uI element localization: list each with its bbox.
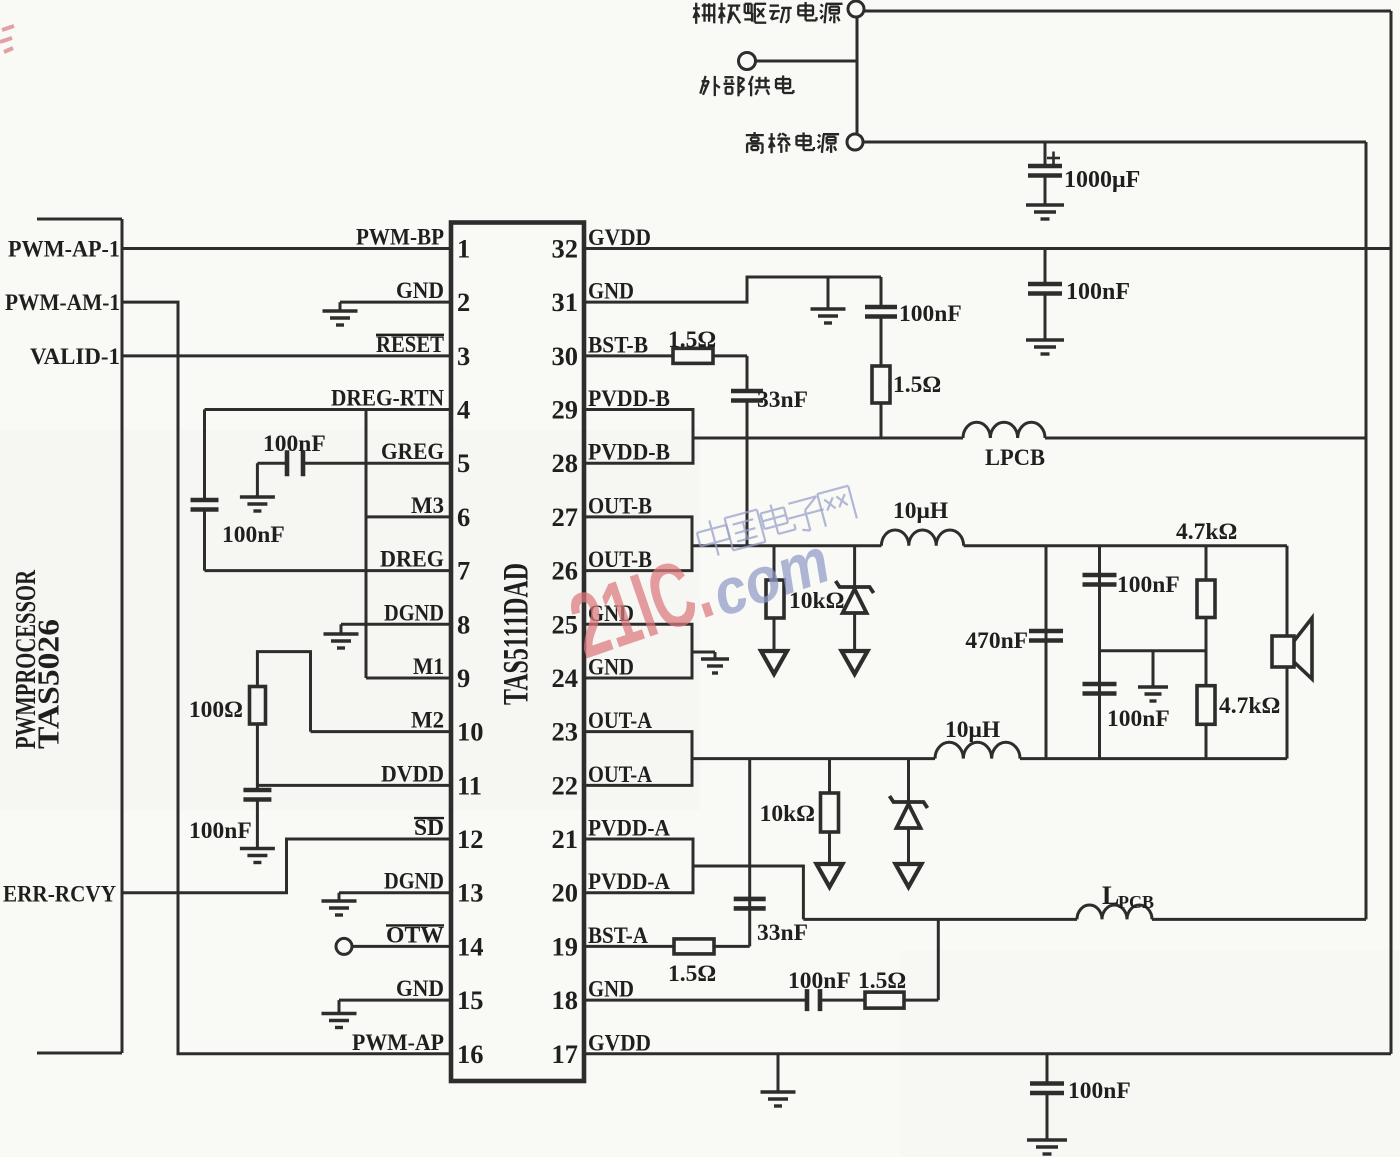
- svg-text:10: 10: [457, 717, 484, 747]
- svg-text:4.7kΩ: 4.7kΩ: [1176, 519, 1237, 545]
- svg-text:29: 29: [552, 395, 579, 425]
- svg-text:31: 31: [552, 287, 579, 317]
- svg-text:DREG-RTN: DREG-RTN: [331, 386, 444, 412]
- svg-text:PVDD-A: PVDD-A: [588, 816, 670, 842]
- svg-text:100nF: 100nF: [899, 301, 962, 327]
- svg-text:DREG: DREG: [380, 547, 444, 573]
- svg-text:16: 16: [457, 1039, 484, 1069]
- svg-text:M3: M3: [411, 493, 444, 519]
- svg-text:4: 4: [457, 395, 470, 425]
- svg-text:32: 32: [552, 234, 579, 264]
- svg-text:19: 19: [552, 931, 579, 961]
- svg-text:100nF: 100nF: [1107, 706, 1170, 732]
- svg-text:PVDD-B: PVDD-B: [588, 440, 670, 466]
- svg-text:28: 28: [552, 448, 579, 478]
- svg-text:100nF: 100nF: [222, 522, 285, 548]
- svg-text:1.5Ω: 1.5Ω: [668, 961, 716, 987]
- svg-text:10μH: 10μH: [945, 717, 1000, 743]
- svg-text:100Ω: 100Ω: [189, 697, 243, 723]
- svg-text:L: L: [1102, 881, 1119, 910]
- svg-text:GND: GND: [588, 279, 634, 305]
- svg-text:M2: M2: [411, 708, 444, 734]
- svg-text:PWM-AP-1: PWM-AP-1: [8, 237, 120, 263]
- svg-text:14: 14: [457, 931, 484, 961]
- svg-text:2: 2: [457, 287, 470, 317]
- svg-text:470nF: 470nF: [965, 628, 1028, 654]
- svg-text:LPCB: LPCB: [985, 445, 1045, 471]
- svg-text:100nF: 100nF: [263, 431, 326, 457]
- svg-text:OUT-B: OUT-B: [588, 493, 652, 519]
- svg-text:100nF: 100nF: [788, 968, 851, 994]
- svg-text:20: 20: [552, 878, 579, 908]
- svg-text:PWM-AP: PWM-AP: [352, 1030, 444, 1056]
- svg-text:17: 17: [552, 1039, 579, 1069]
- svg-text:GREG: GREG: [381, 439, 444, 465]
- svg-text:23: 23: [552, 717, 579, 747]
- svg-text:PCB: PCB: [1118, 892, 1154, 912]
- svg-text:13: 13: [457, 878, 484, 908]
- svg-text:DVDD: DVDD: [381, 761, 444, 787]
- svg-text:33nF: 33nF: [757, 387, 808, 413]
- svg-text:1.5Ω: 1.5Ω: [858, 968, 906, 994]
- svg-text:PVDD-B: PVDD-B: [588, 386, 670, 412]
- svg-text:PWM-BP: PWM-BP: [356, 225, 444, 251]
- svg-text:TAS5026: TAS5026: [31, 619, 66, 749]
- svg-text:GVDD: GVDD: [588, 225, 651, 251]
- svg-text:15: 15: [457, 985, 484, 1015]
- svg-text:100nF: 100nF: [189, 818, 252, 844]
- svg-text:1: 1: [457, 234, 470, 264]
- svg-text:6: 6: [457, 502, 470, 532]
- svg-text:PWM-AM-1: PWM-AM-1: [5, 290, 120, 316]
- svg-text:100nF: 100nF: [1066, 279, 1130, 305]
- svg-text:BST-B: BST-B: [588, 332, 648, 358]
- svg-text:DGND: DGND: [384, 600, 444, 626]
- svg-text:4.7kΩ: 4.7kΩ: [1219, 693, 1280, 719]
- svg-text:18: 18: [552, 985, 579, 1015]
- svg-text:5: 5: [457, 448, 470, 478]
- svg-text:9: 9: [457, 663, 470, 693]
- svg-text:ERR-RCVY: ERR-RCVY: [3, 882, 116, 908]
- svg-text:OUT-A: OUT-A: [588, 708, 652, 734]
- svg-text:8: 8: [457, 609, 470, 639]
- svg-text:7: 7: [457, 556, 470, 586]
- svg-text:100nF: 100nF: [1068, 1078, 1131, 1104]
- svg-text:21: 21: [552, 824, 579, 854]
- svg-text:GND: GND: [588, 977, 634, 1003]
- svg-text:M1: M1: [413, 654, 444, 680]
- svg-text:30: 30: [552, 341, 579, 371]
- svg-text:PVDD-A: PVDD-A: [588, 869, 670, 895]
- svg-text:27: 27: [552, 502, 579, 532]
- svg-text:BST-A: BST-A: [588, 923, 648, 949]
- svg-text:GND: GND: [396, 976, 444, 1002]
- svg-text:1000μF: 1000μF: [1064, 167, 1140, 193]
- svg-text:11: 11: [457, 770, 482, 800]
- svg-text:GND: GND: [396, 278, 444, 304]
- svg-text:GVDD: GVDD: [588, 1030, 651, 1056]
- svg-text:24: 24: [552, 663, 579, 693]
- svg-text:TAS5111DAD: TAS5111DAD: [496, 563, 536, 705]
- svg-text:OUT-A: OUT-A: [588, 762, 652, 788]
- svg-text:100nF: 100nF: [1117, 572, 1180, 598]
- svg-text:10kΩ: 10kΩ: [760, 801, 815, 827]
- svg-text:33nF: 33nF: [757, 920, 808, 946]
- svg-text:VALID-1: VALID-1: [30, 344, 120, 370]
- svg-text:12: 12: [457, 824, 484, 854]
- svg-text:1.5Ω: 1.5Ω: [893, 372, 941, 398]
- svg-text:10μH: 10μH: [893, 498, 948, 524]
- svg-text:22: 22: [552, 770, 579, 800]
- svg-text:1.5Ω: 1.5Ω: [668, 327, 716, 353]
- svg-text:3: 3: [457, 341, 470, 371]
- svg-text:DGND: DGND: [384, 869, 444, 895]
